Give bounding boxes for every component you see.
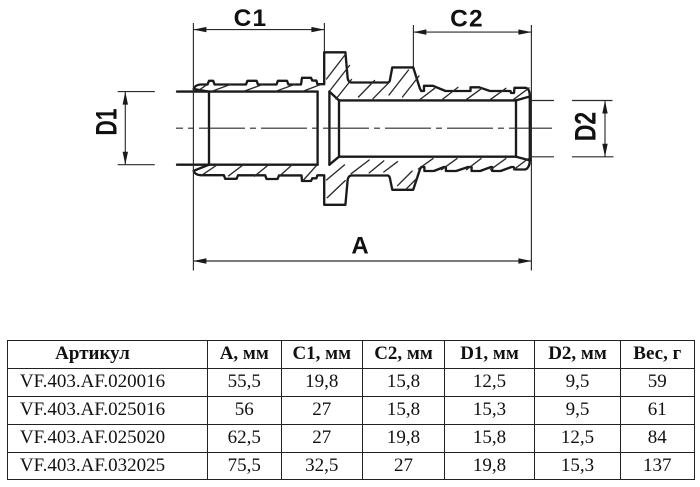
svg-text:D1: D1 — [91, 109, 124, 136]
left entry chamfer edges — [194, 89, 209, 171]
C1 dimension line — [193, 29, 324, 31]
right chamfer edge ring — [515, 100, 517, 156]
hatch centre bottom — [327, 160, 417, 198]
svg-text:C2: C2 — [450, 6, 484, 33]
extension line right (C2/A) — [530, 25, 532, 271]
D2 extension segments — [530, 101, 614, 157]
D2 arrows — [602, 101, 607, 114]
C2 arrows — [413, 29, 426, 34]
D1 arrows — [123, 92, 128, 105]
outer profile of coupling body — [194, 52, 530, 205]
extension line left (C1/A) — [192, 23, 194, 271]
D2 dimension line — [604, 101, 606, 157]
fitting body outline (cross-section) — [177, 52, 530, 205]
small bore lines — [339, 100, 516, 156]
arrowheads — [123, 27, 608, 264]
hatch left bottom band — [202, 165, 318, 180]
A arrows — [193, 258, 206, 263]
extension line C2 left — [412, 25, 414, 67]
chamfer edge ring left — [208, 92, 210, 165]
socket end wall — [318, 92, 330, 165]
svg-text:A: A — [351, 233, 368, 260]
cone transition — [329, 92, 339, 165]
hatch left top band — [198, 84, 321, 91]
D1 extension segments — [118, 92, 155, 165]
C2 dimension line — [413, 31, 531, 33]
hatch right bottom band — [418, 159, 528, 170]
D1 dimension line — [124, 92, 126, 165]
svg-text:D2: D2 — [569, 112, 602, 142]
hatching — [198, 55, 529, 198]
data table — [7, 340, 695, 480]
hatch centre top — [327, 55, 420, 100]
C1 arrows — [193, 27, 206, 32]
dimension labels — [91, 5, 603, 259]
extension line C1 right — [323, 23, 325, 52]
A dimension line — [193, 260, 531, 262]
large bore lines — [177, 92, 318, 165]
svg-text:C1: C1 — [234, 5, 268, 32]
right entry chamfer edges — [516, 97, 530, 161]
centerline — [176, 127, 552, 129]
dimension extension lines — [118, 23, 614, 271]
hatch right top band — [420, 87, 529, 99]
